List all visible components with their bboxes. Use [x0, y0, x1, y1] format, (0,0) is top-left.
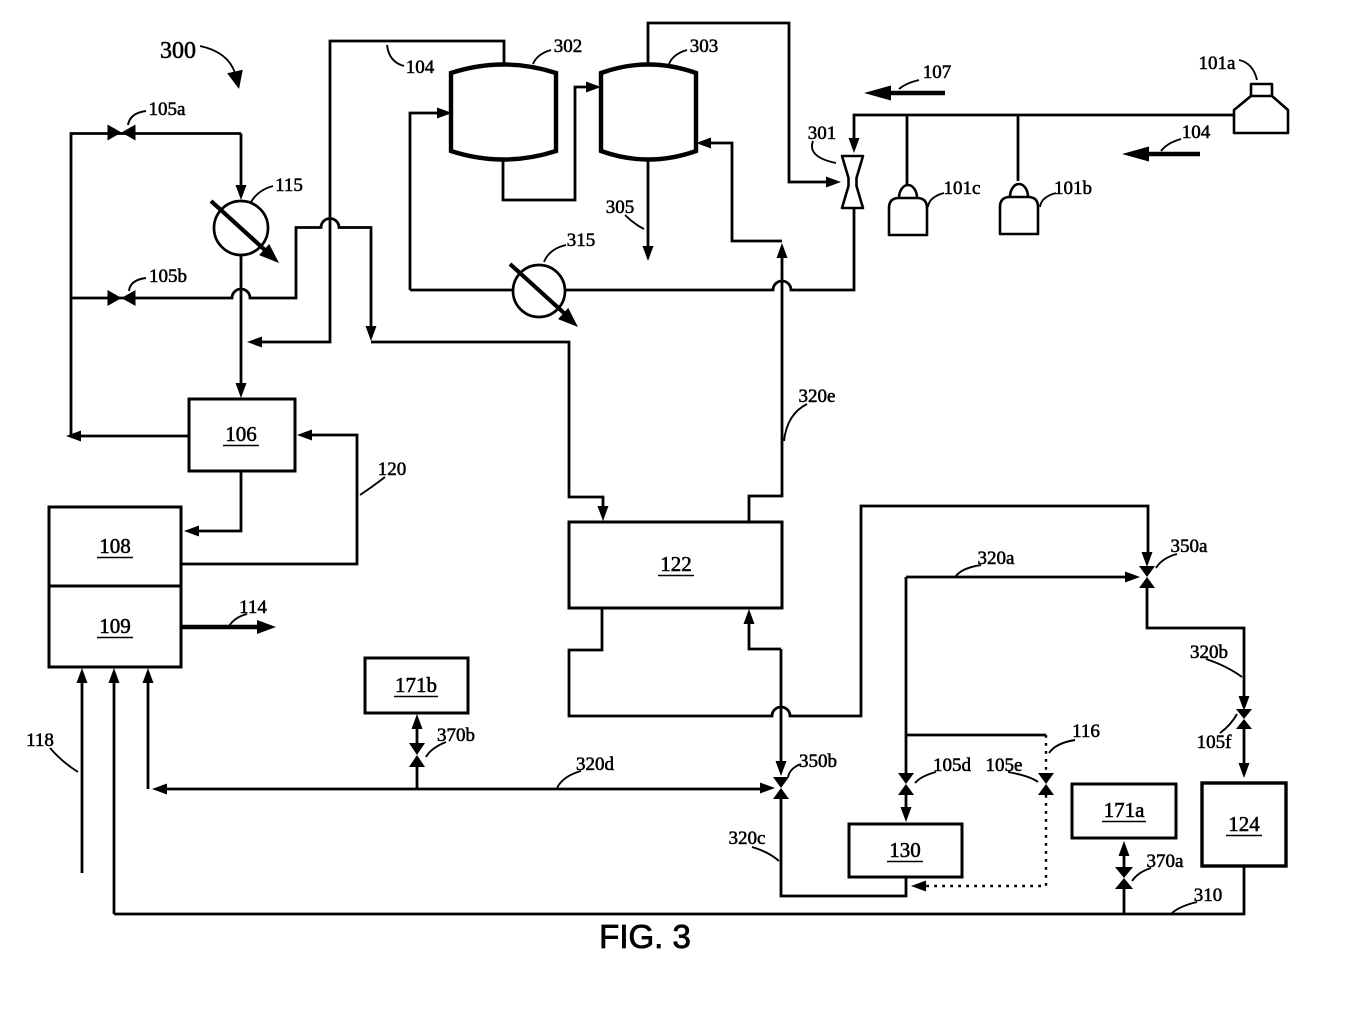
cylinder 101b	[1000, 184, 1038, 234]
svg-text:105b: 105b	[149, 266, 187, 287]
svg-text:303: 303	[690, 36, 719, 57]
svg-text:108: 108	[99, 534, 131, 558]
svg-text:FIG. 3: FIG. 3	[599, 918, 691, 955]
wire 101b drop	[1017, 115, 1020, 181]
svg-text:109: 109	[99, 614, 131, 638]
svg-text:120: 120	[378, 459, 407, 480]
vessel 302	[451, 65, 556, 160]
wire 104 feed top	[247, 41, 504, 348]
stream arrow 104	[1122, 147, 1200, 162]
leader 300	[200, 46, 243, 89]
heat exchanger 315	[510, 264, 578, 327]
wire into 124 top	[1239, 729, 1250, 778]
leader 315	[544, 245, 566, 262]
valve 105e	[1038, 773, 1054, 795]
svg-text:101a: 101a	[1199, 53, 1237, 74]
wire 303 right inlet	[696, 138, 782, 242]
svg-text:320a: 320a	[978, 548, 1016, 569]
svg-text:101b: 101b	[1054, 178, 1092, 199]
valve 350a	[1139, 566, 1155, 588]
leader 320a	[956, 565, 981, 576]
leader 104 top	[387, 45, 404, 66]
stream arrow 107	[864, 86, 945, 101]
svg-text:171b: 171b	[395, 673, 437, 697]
leader 370a	[1132, 868, 1151, 881]
leader 350a	[1156, 554, 1177, 568]
valve 370a	[1115, 867, 1133, 889]
svg-text:122: 122	[660, 552, 692, 576]
wire 101 manifold	[849, 115, 1235, 153]
wire into pump 115	[236, 134, 247, 201]
unit 106	[189, 399, 295, 471]
leader 105e	[1008, 772, 1038, 782]
wire 106 recycle out	[66, 431, 189, 442]
wire 320a	[906, 572, 1140, 583]
valve 105a	[108, 125, 136, 141]
svg-text:116: 116	[1072, 721, 1100, 742]
unit 130	[849, 824, 962, 877]
unit 124	[1202, 783, 1286, 866]
svg-text:106: 106	[225, 422, 257, 446]
wire 350b riser	[776, 649, 787, 776]
svg-text:350b: 350b	[799, 751, 837, 772]
leader 303	[669, 50, 687, 64]
svg-text:105a: 105a	[149, 99, 187, 120]
wire 305 product out	[643, 161, 654, 261]
wire 106 to 108	[184, 471, 241, 537]
wire 320d riser	[143, 668, 154, 789]
leader 101c	[928, 193, 944, 207]
svg-text:115: 115	[275, 175, 303, 196]
wire 370a branch	[1119, 841, 1130, 914]
wire 105b line	[71, 219, 377, 342]
wire 320b	[1147, 588, 1250, 711]
leader 104 right	[1161, 139, 1181, 151]
wire 320c	[781, 799, 906, 896]
wire 320e riser	[749, 243, 788, 522]
wire 122 bottoms loop	[569, 506, 1153, 716]
leader 116	[1049, 740, 1075, 753]
wire 105a line	[71, 134, 241, 437]
leader 105b	[129, 278, 146, 291]
wire 105d branch	[905, 577, 908, 773]
svg-text:301: 301	[808, 123, 837, 144]
svg-text:124: 124	[1228, 812, 1260, 836]
wire 122 bottom inlet	[744, 609, 782, 649]
svg-text:320e: 320e	[799, 386, 836, 407]
unit 171b	[365, 658, 468, 713]
unit 122	[569, 522, 782, 608]
leader 305	[625, 215, 644, 229]
leader 118	[50, 748, 78, 772]
svg-text:101c: 101c	[944, 178, 981, 199]
leader 105a	[128, 111, 146, 125]
svg-text:114: 114	[239, 597, 267, 618]
valve 105b	[108, 290, 136, 306]
wire 116 dashed return	[911, 795, 1046, 892]
svg-text:171a: 171a	[1104, 798, 1146, 822]
wire 310 return riser	[109, 668, 120, 914]
leader 115	[251, 186, 273, 202]
valve 105f	[1236, 709, 1252, 729]
pump 115	[211, 201, 279, 263]
leader 320b	[1206, 659, 1242, 677]
svg-text:305: 305	[606, 197, 635, 218]
leader 120	[360, 477, 385, 495]
wire 370b branch	[412, 714, 423, 789]
leader 114	[229, 614, 247, 626]
wire pump 115 to unit 106	[236, 255, 247, 398]
svg-text:315: 315	[567, 230, 596, 251]
cylinder 101c	[889, 185, 927, 235]
leader 320c	[752, 847, 779, 861]
tank 101a	[1234, 84, 1288, 133]
wire 120 line	[181, 430, 357, 565]
wire into 130 top	[901, 795, 912, 822]
svg-text:310: 310	[1194, 885, 1223, 906]
leader 302	[533, 50, 551, 64]
svg-text:320c: 320c	[729, 828, 766, 849]
leader 101b	[1040, 193, 1056, 207]
wire 303 overhead to eductor	[648, 23, 841, 188]
svg-text:320d: 320d	[576, 754, 615, 775]
svg-text:130: 130	[889, 838, 921, 862]
leader 301	[812, 141, 836, 163]
svg-text:104: 104	[406, 57, 435, 78]
wire 302 inlet	[410, 108, 452, 291]
leader 101a	[1239, 60, 1257, 80]
wire 116 branch top	[906, 734, 1046, 737]
wire 101c drop	[906, 115, 909, 184]
svg-text:300: 300	[160, 38, 196, 64]
leader 370b	[426, 742, 446, 757]
leader 105d	[915, 772, 936, 783]
leader 320e	[784, 404, 807, 441]
vessel 303	[601, 65, 696, 160]
svg-text:350a: 350a	[1171, 536, 1209, 557]
unit 171a	[1072, 784, 1176, 838]
svg-text:118: 118	[26, 730, 54, 751]
valve 370b	[409, 743, 425, 767]
valve 350b	[773, 777, 789, 799]
svg-text:320b: 320b	[1190, 642, 1228, 663]
wire 116 dashed drop	[1045, 735, 1047, 773]
stream arrow 114	[181, 620, 276, 634]
wire 305 exchanger line	[410, 208, 854, 290]
svg-text:105f: 105f	[1197, 732, 1233, 753]
wire 310 bottom line	[114, 866, 1244, 914]
leader 107	[899, 80, 919, 89]
wire 320d line	[152, 783, 775, 795]
wire to unit 122 top	[371, 342, 609, 521]
eductor 301	[842, 156, 863, 208]
leader 350b	[788, 764, 801, 777]
svg-text:370a: 370a	[1147, 851, 1185, 872]
svg-text:105e: 105e	[986, 755, 1023, 776]
leader 310	[1172, 902, 1197, 913]
valve 105d	[898, 773, 914, 795]
unit 108 109	[49, 507, 181, 667]
wire 118 feed	[77, 668, 88, 873]
leader 320d	[557, 771, 581, 788]
svg-text:104: 104	[1182, 122, 1211, 143]
svg-text:105d: 105d	[933, 755, 972, 776]
svg-text:302: 302	[554, 36, 583, 57]
svg-text:370b: 370b	[437, 725, 475, 746]
leader 105f	[1220, 714, 1237, 733]
wire 302 bottoms to 303	[503, 82, 601, 201]
svg-text:107: 107	[923, 62, 952, 83]
